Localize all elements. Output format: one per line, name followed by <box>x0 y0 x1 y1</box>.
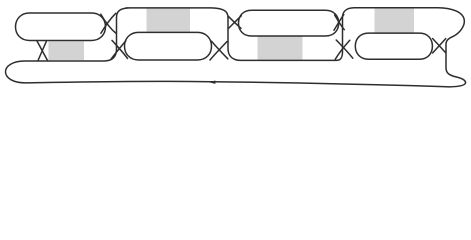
link 4 inner stadium <box>355 33 432 59</box>
tie X: link1 bottom to belt <box>37 41 48 61</box>
link 2 inner stadium <box>125 32 212 60</box>
arrow head on belt bottom (pointing left) <box>209 81 216 84</box>
belt weave loop (belt + link2 outer arch + link4 outer arch, one closed curve) <box>6 8 466 87</box>
gray overlap shade G1 <box>49 42 85 61</box>
tie X: link2-inner right cap to arch2 right edge <box>210 41 228 60</box>
gray overlap shade G4 <box>375 8 415 33</box>
tie X: arch2 right edge to link3 left cap <box>228 16 241 29</box>
link 3 stadium <box>239 10 339 36</box>
tie X: arch4 left edge to link4-inner left cap <box>335 40 353 59</box>
tie X: link1 right cap to belt left edge of arch2 <box>101 13 117 33</box>
tie X: link4-inner right cap to belt right vertical <box>433 39 446 54</box>
tie X: link3 right cap to arch4 left edge <box>334 15 344 31</box>
link 1 stadium <box>16 13 106 41</box>
gray overlap shade G3 <box>258 37 303 60</box>
tie X: arch2 left edge to link2-inner left cap <box>111 40 128 59</box>
gray overlap shade G2 <box>147 9 191 32</box>
